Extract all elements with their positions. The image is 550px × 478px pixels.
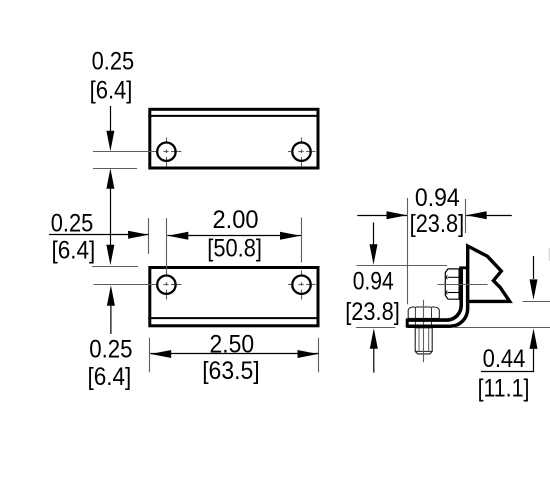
svg-text:2.00: 2.00 xyxy=(213,206,259,234)
svg-text:0.25: 0.25 xyxy=(92,47,135,75)
svg-text:[11.1]: [11.1] xyxy=(478,375,530,403)
svg-text:[6.4]: [6.4] xyxy=(90,77,133,105)
svg-text:[23.8]: [23.8] xyxy=(410,210,465,238)
svg-text:0.94: 0.94 xyxy=(415,184,460,212)
svg-text:0.25: 0.25 xyxy=(51,210,94,238)
svg-text:[50.8]: [50.8] xyxy=(207,235,262,263)
svg-text:[6.4]: [6.4] xyxy=(52,237,96,265)
svg-text:[6.4]: [6.4] xyxy=(88,363,132,391)
svg-text:0.94: 0.94 xyxy=(353,268,394,296)
svg-text:[23.8]: [23.8] xyxy=(345,298,400,326)
svg-text:[63.5]: [63.5] xyxy=(202,357,259,385)
svg-text:0.44: 0.44 xyxy=(483,345,526,373)
svg-text:0.25: 0.25 xyxy=(89,335,132,363)
svg-text:2.50: 2.50 xyxy=(210,330,255,358)
